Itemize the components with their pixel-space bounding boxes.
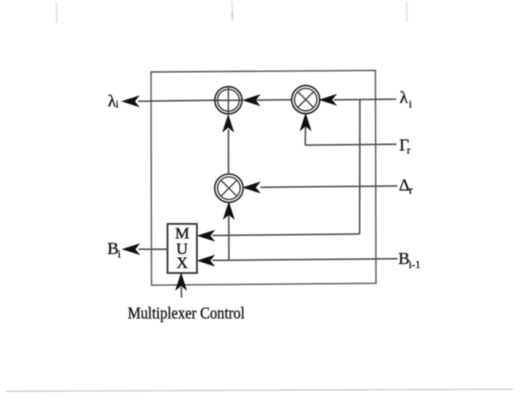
arrowhead: into multiplier U2 bottom xyxy=(301,114,311,130)
wire: branch horizontal into MUX top input xyxy=(213,234,360,236)
scan artifact: faint top tick 1 xyxy=(56,2,59,23)
svg-text:M: M xyxy=(175,225,189,242)
wire: B_i-1 input horizontal xyxy=(213,259,398,261)
svg-text:r: r xyxy=(409,185,413,196)
multiplier U3 inner circle xyxy=(218,177,241,200)
MUX box xyxy=(168,224,197,273)
arrowhead: into multiplier U2 right xyxy=(320,95,336,105)
wire: lambda_i input (right) xyxy=(334,98,396,101)
multiplier U2 inner circle xyxy=(295,88,317,110)
svg-text:i: i xyxy=(409,99,412,110)
wire: lambda_i output (left) xyxy=(138,99,215,102)
wire: multiplexer control vertical xyxy=(180,287,182,298)
wire: multiplier1 to adder xyxy=(256,99,292,101)
arrowhead: into left lambda_i xyxy=(123,96,139,106)
scan artifact: faint top tick 3 xyxy=(406,1,409,22)
wire: Delta_r input horizontal xyxy=(261,186,398,187)
svg-text:Multiplexer Control: Multiplexer Control xyxy=(128,304,245,323)
arrowhead: into MUX bottom input xyxy=(198,256,214,266)
arrowhead: into multiplier U3 bottom xyxy=(224,203,234,219)
wire: Gamma_r vertical up to multiplier U2 xyxy=(304,127,306,145)
wire: branch of lambda_i down to MUX (vertical) xyxy=(359,100,361,234)
adder U1 (circled plus) outer xyxy=(215,87,242,114)
adder plus horizontal xyxy=(215,99,242,101)
svg-text:i: i xyxy=(118,250,121,261)
svg-text:i-1: i-1 xyxy=(409,260,421,271)
svg-text:i: i xyxy=(116,100,119,111)
scan artifact: faint top tick 2 xyxy=(231,1,234,22)
svg-text:λ: λ xyxy=(400,88,409,107)
wire: B_i-1 up into multiplier U3 bottom xyxy=(228,214,230,260)
arrowhead: into MUX bottom (control) xyxy=(176,274,186,290)
wire: multiplier U3 up to adder xyxy=(227,130,229,175)
arrowhead: into multiplier U3 right xyxy=(244,183,259,193)
arrowhead: into adder right xyxy=(244,95,260,105)
multiplier U3 (circled X, middle) outer xyxy=(215,174,243,202)
multiplier U3 X diagonals xyxy=(221,180,237,196)
adder plus vertical xyxy=(227,87,229,114)
svg-text:r: r xyxy=(407,145,411,156)
wire: Gamma_r input horizontal xyxy=(305,143,396,146)
arrowhead: into MUX top input xyxy=(198,231,214,241)
adder U1 inner circle xyxy=(218,89,240,111)
enclosing block box xyxy=(151,70,376,285)
multiplier U2 (circled X, top) outer xyxy=(292,86,320,114)
multiplier U2 X diagonals xyxy=(298,92,314,108)
wire: B_i output from MUX xyxy=(139,248,168,250)
arrowhead: into left B_i xyxy=(123,244,139,254)
scan artifact: faint bottom page edge line xyxy=(6,389,513,391)
svg-text:X: X xyxy=(176,255,188,272)
arrowhead: into adder bottom xyxy=(223,116,233,132)
